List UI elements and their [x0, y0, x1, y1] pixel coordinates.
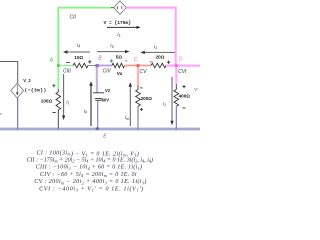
svg-text:im: im: [125, 116, 129, 121]
svg-text:CIV: CIV: [103, 69, 112, 75]
svg-text:CIII: CIII: [63, 69, 71, 75]
svg-text:CVI : −400i3 + V1′ = 0 1E. 1i(: CVI : −400i3 + V1′ = 0 1E. 1i(V1′): [39, 185, 144, 192]
svg-text:-60V: -60V: [100, 98, 109, 103]
svg-text:CII : −175im + 20i2 − 5i4 + 10: CII : −175im + 20i2 − 5i4 + 10i4 = 0 1E.…: [27, 157, 154, 164]
svg-text:5Ω: 5Ω: [116, 54, 123, 59]
svg-text:10Ω: 10Ω: [74, 55, 83, 60]
svg-text:i4: i4: [77, 44, 80, 49]
svg-text:(•{3m}): (•{3m}): [25, 88, 47, 94]
svg-text:V': V': [194, 87, 198, 92]
svg-text:A: A: [49, 58, 54, 64]
svg-text:Va: Va: [117, 71, 123, 76]
svg-text:C: C: [134, 57, 138, 63]
svg-text:V_2: V_2: [23, 78, 31, 83]
svg-text:100Ω: 100Ω: [41, 98, 53, 103]
svg-text:V2: V2: [105, 88, 111, 93]
svg-text:400Ω: 400Ω: [179, 94, 191, 99]
svg-text:iL: iL: [117, 33, 120, 38]
svg-text:D: D: [179, 57, 183, 63]
svg-text:20Ω: 20Ω: [156, 55, 165, 60]
svg-text:V = {175m}: V = {175m}: [104, 20, 132, 26]
svg-text:E: E: [103, 134, 107, 140]
svg-text:CI : 100(3im) − V1 = 0 1E. 2i: CI : 100(3im) − V1 = 0 1E. 2i(im, V1): [36, 149, 139, 157]
svg-text:i4: i4: [110, 44, 113, 49]
svg-text:CIV : −60 + 5i4 = 200im = 0 1E: CIV : −60 + 5i4 = 200im = 0 1E. 0i: [40, 172, 137, 178]
svg-text:i4: i4: [84, 110, 87, 115]
svg-text:CV: CV: [140, 69, 148, 75]
svg-text:B: B: [98, 55, 102, 61]
svg-text:ia: ia: [0, 111, 2, 116]
svg-text:CV : 200im − 20i2 + 400i3 = 0: CV : 200im − 20i2 + 400i3 = 0 1E. 1i(i3): [34, 178, 147, 185]
svg-text:CIII : −100i1 − 10i4 + 60 = 0: CIII : −100i1 − 10i4 + 60 = 0 1E. 1i(i1): [36, 164, 143, 171]
svg-text:200Ω: 200Ω: [141, 96, 153, 101]
svg-text:i2: i2: [154, 45, 157, 50]
svg-text:i3: i3: [163, 103, 166, 108]
svg-text:i1: i1: [66, 100, 69, 105]
svg-text:CII: CII: [70, 15, 77, 21]
svg-text:CVI: CVI: [178, 69, 187, 75]
